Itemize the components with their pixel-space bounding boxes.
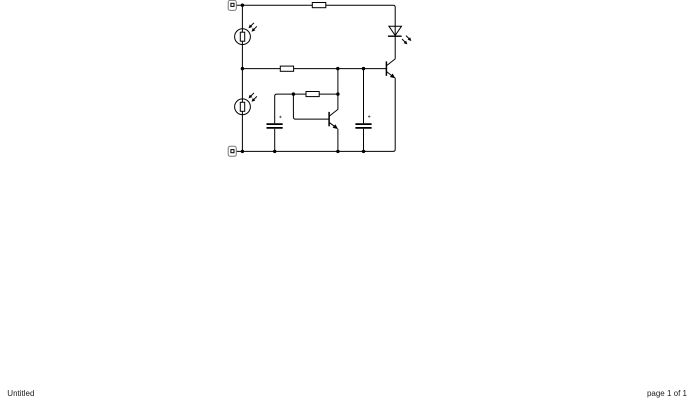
wire C2 top branch: [363, 69, 365, 124]
capacitor C2 (electrolytic): [355, 115, 371, 128]
junction bottom rail C2: [362, 150, 365, 153]
wire C1 top branch: [275, 94, 306, 123]
photoresistor LDR1: [235, 23, 257, 45]
resistor R1: [312, 3, 326, 8]
wire middle row: [242, 68, 386, 70]
terminal P1 (top left): [228, 0, 236, 10]
junction bottom rail left: [241, 150, 244, 153]
wire Q2 base branch: [293, 94, 329, 119]
junction R3 right: [336, 92, 339, 95]
junction middle row at collector branch: [336, 67, 339, 70]
title label: [7, 389, 34, 398]
wire Q2 emitter to bottom rail: [337, 129, 339, 152]
wire left rail: [241, 5, 243, 151]
transistor Q1: [386, 59, 395, 79]
wire Q1 emitter to bottom rail: [364, 78, 396, 152]
capacitor C1 (electrolytic): [267, 116, 283, 128]
wire C1 bottom to rail: [274, 129, 276, 152]
transistor Q2: [329, 109, 338, 129]
page number label: [647, 389, 687, 398]
junction middle row at C2 branch: [362, 67, 365, 70]
wire C2 bottom to rail: [363, 129, 365, 152]
junction middle row left: [241, 67, 244, 70]
photoresistor LDR2: [235, 93, 257, 115]
junction bottom rail Q2 emitter: [336, 150, 339, 153]
resistor R2: [280, 66, 293, 71]
junction R3 left: [292, 92, 295, 95]
wire bottom rail: [236, 150, 366, 152]
wire R3 right lead to collector branch: [319, 93, 338, 95]
LED D1: [388, 26, 412, 44]
junction at top of left rail: [241, 3, 244, 6]
wire top rail: [236, 5, 395, 36]
wire LED cathode to Q1 collector: [394, 36, 396, 59]
resistor R3: [306, 92, 319, 97]
terminal P2 (bottom left): [228, 146, 236, 156]
wire collector branch vertical: [337, 69, 339, 110]
junction bottom rail C1: [273, 150, 276, 153]
